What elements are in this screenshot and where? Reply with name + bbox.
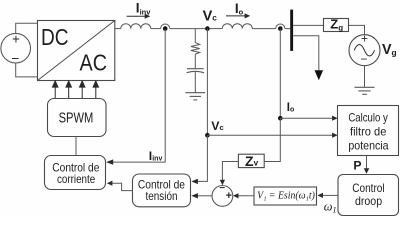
wire P to droop <box>366 156 368 170</box>
wire resistor to capacitor <box>194 54 196 68</box>
wire V1 to summing junction <box>238 195 255 197</box>
svg-text:P: P <box>353 158 361 172</box>
capacitor C_f <box>187 69 204 73</box>
svg-text:+: + <box>12 32 20 47</box>
SPWM gate arrows <box>53 81 99 99</box>
ground (filter) <box>185 93 205 100</box>
arrow into tension control (V_c) <box>191 179 198 184</box>
V1 reference generator block <box>254 187 317 205</box>
arrow P into droop <box>364 168 370 174</box>
inductor L_inv <box>115 24 161 29</box>
svg-text:corriente: corriente <box>57 173 95 186</box>
wire summing junction to tension control <box>197 195 212 197</box>
node B (I_o sense) with hop <box>276 24 285 31</box>
wire DC- to converter <box>16 63 38 77</box>
wire I_o to power calc <box>280 117 332 119</box>
load arrow <box>315 70 324 80</box>
arrow into current control (I_inv) <box>106 159 113 164</box>
power calculation block <box>338 106 399 156</box>
wire V_c down to tension control <box>197 135 207 181</box>
wire capacitor to ground <box>194 72 196 93</box>
wire V_c node to inductor L_o <box>210 28 223 30</box>
Control de corriente block <box>45 156 106 190</box>
arrow into summing junction (V1) <box>233 193 239 198</box>
wire node A to V_c node <box>170 28 205 30</box>
wire V_g to ground <box>364 66 366 88</box>
wire V_c to power calc <box>207 134 332 136</box>
arrow into summing junction (Z_v) <box>220 180 225 186</box>
wire Z_g to V_g <box>349 25 365 34</box>
svg-text:SPWM: SPWM <box>59 111 94 127</box>
AC grid source V_g <box>349 31 380 66</box>
DC/AC converter U1 <box>38 21 115 81</box>
wire DC+ to converter <box>16 23 38 33</box>
wire tension control to current control <box>112 183 133 190</box>
svg-text:+: + <box>361 31 368 45</box>
svg-text:AC: AC <box>80 50 108 76</box>
node A (I_inv sense) with hop <box>161 24 170 31</box>
wire I_o sense down <box>279 29 281 119</box>
impedance Z_g <box>324 17 349 33</box>
droop control block <box>338 175 399 216</box>
svg-text:−: − <box>360 52 367 66</box>
wire I_o down to Z_v <box>264 118 280 161</box>
svg-text:DC: DC <box>41 24 69 50</box>
I_o label arrow <box>226 1 250 19</box>
svg-text:droop: droop <box>355 195 383 208</box>
Control de tension block <box>133 174 191 207</box>
load branch wire <box>293 36 319 71</box>
svg-text:Control: Control <box>352 182 384 195</box>
arrow into power calc (I_o) <box>332 116 338 121</box>
wire droop to V1 generator <box>323 194 338 196</box>
SPWM block <box>48 99 107 137</box>
arrow into current control (tension) <box>107 181 113 186</box>
summing junction S1 <box>212 183 233 206</box>
I_inv label arrow <box>127 1 152 19</box>
DC source V_dc <box>1 33 31 63</box>
node V_c <box>205 26 210 31</box>
svg-text:−: − <box>219 183 225 194</box>
svg-text:V₁ = Esin(ω₁t): V₁ = Esin(ω₁t) <box>257 189 315 201</box>
wire I_inv sense down <box>113 29 165 163</box>
wire current-control to SPWM <box>75 137 77 156</box>
bus bar (PCC) <box>290 10 293 51</box>
svg-text:filtro de: filtro de <box>350 125 387 139</box>
arrow into tension control (sum) <box>191 193 198 198</box>
impedance Z_v (virtual) <box>238 153 264 169</box>
arrow into V1 generator <box>317 193 323 198</box>
inductor L_o <box>222 24 252 29</box>
svg-text:tensión: tensión <box>146 190 178 203</box>
wire node B to bus bar <box>285 28 290 30</box>
resistor R_d <box>191 43 200 55</box>
wire V_c sense down <box>206 29 208 136</box>
wire V_c node to filter branch <box>194 29 196 43</box>
wire bus to Z_g <box>293 24 323 26</box>
svg-text:+: + <box>226 190 232 202</box>
wire L_o to node B <box>252 28 275 30</box>
wire Z_v to summing junction <box>222 162 238 181</box>
arrow into power calc (V_c) <box>332 133 338 138</box>
svg-text:Calculo y: Calculo y <box>348 111 387 125</box>
node I_o sense <box>278 116 283 121</box>
node V_c sense <box>205 133 210 138</box>
svg-text:potencia: potencia <box>348 139 389 153</box>
ground (grid) <box>355 87 375 94</box>
